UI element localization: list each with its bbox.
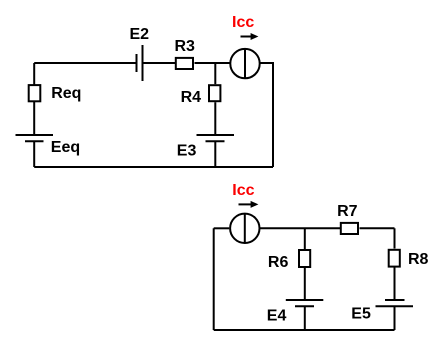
- wire junction down to R4: [214, 63, 216, 84]
- wire source to left rail (bottom circuit): [214, 227, 230, 229]
- wire R8 to E5: [394, 267, 396, 300]
- battery E4: [286, 300, 324, 306]
- svg-text:R3: R3: [175, 38, 196, 55]
- svg-text:R7: R7: [337, 203, 358, 220]
- battery E3: [197, 135, 235, 141]
- svg-text:E5: E5: [351, 306, 371, 323]
- svg-text:R8: R8: [408, 251, 429, 268]
- svg-text:Icc: Icc: [232, 14, 254, 31]
- wire E5 to bottom rail: [394, 306, 396, 330]
- svg-text:E2: E2: [130, 26, 150, 43]
- battery Eeq: [16, 135, 54, 141]
- wire R4 to E3: [214, 102, 216, 135]
- wire junction down to R6: [304, 228, 306, 249]
- battery E2: [137, 45, 143, 81]
- wire left rail top: [33, 63, 35, 85]
- wire top rail left segment: [34, 62, 136, 64]
- current source Icc (top): [230, 49, 259, 78]
- battery E5: [376, 300, 414, 306]
- wire bottom rail (bottom circuit): [214, 329, 395, 331]
- resistor R4: [209, 85, 220, 101]
- resistor R3: [176, 58, 193, 69]
- svg-text:E3: E3: [177, 143, 197, 160]
- wire E3 to bottom rail: [214, 141, 216, 167]
- resistor R7: [341, 223, 358, 234]
- resistor R8: [389, 250, 400, 267]
- arrow current direction (bottom): [239, 201, 259, 208]
- wire left rail (bottom circuit): [213, 228, 215, 330]
- wire right rail down to R8: [394, 228, 396, 248]
- wire R6 to E4: [304, 268, 306, 301]
- wire R7 to right rail: [360, 227, 395, 229]
- current source Icc (bottom): [230, 214, 259, 243]
- wire source to right rail down: [260, 63, 273, 167]
- wire Eeq to bottom rail: [33, 141, 35, 167]
- svg-text:E4: E4: [267, 308, 287, 325]
- wire bottom rail (top circuit): [34, 166, 273, 168]
- svg-text:Icc: Icc: [232, 182, 254, 199]
- wire E2 to R3: [143, 62, 176, 64]
- svg-text:R4: R4: [181, 89, 202, 106]
- svg-text:R6: R6: [268, 254, 289, 271]
- arrow current direction (top): [241, 33, 259, 40]
- wire source to R7: [260, 227, 340, 229]
- wire Req to Eeq: [33, 102, 35, 135]
- wire E4 to bottom rail: [304, 306, 306, 330]
- svg-text:Req: Req: [51, 85, 81, 102]
- wire R3 to current source: [195, 62, 230, 64]
- resistor R6: [299, 250, 310, 267]
- svg-text:Eeq: Eeq: [51, 139, 80, 156]
- resistor Req: [29, 85, 41, 101]
